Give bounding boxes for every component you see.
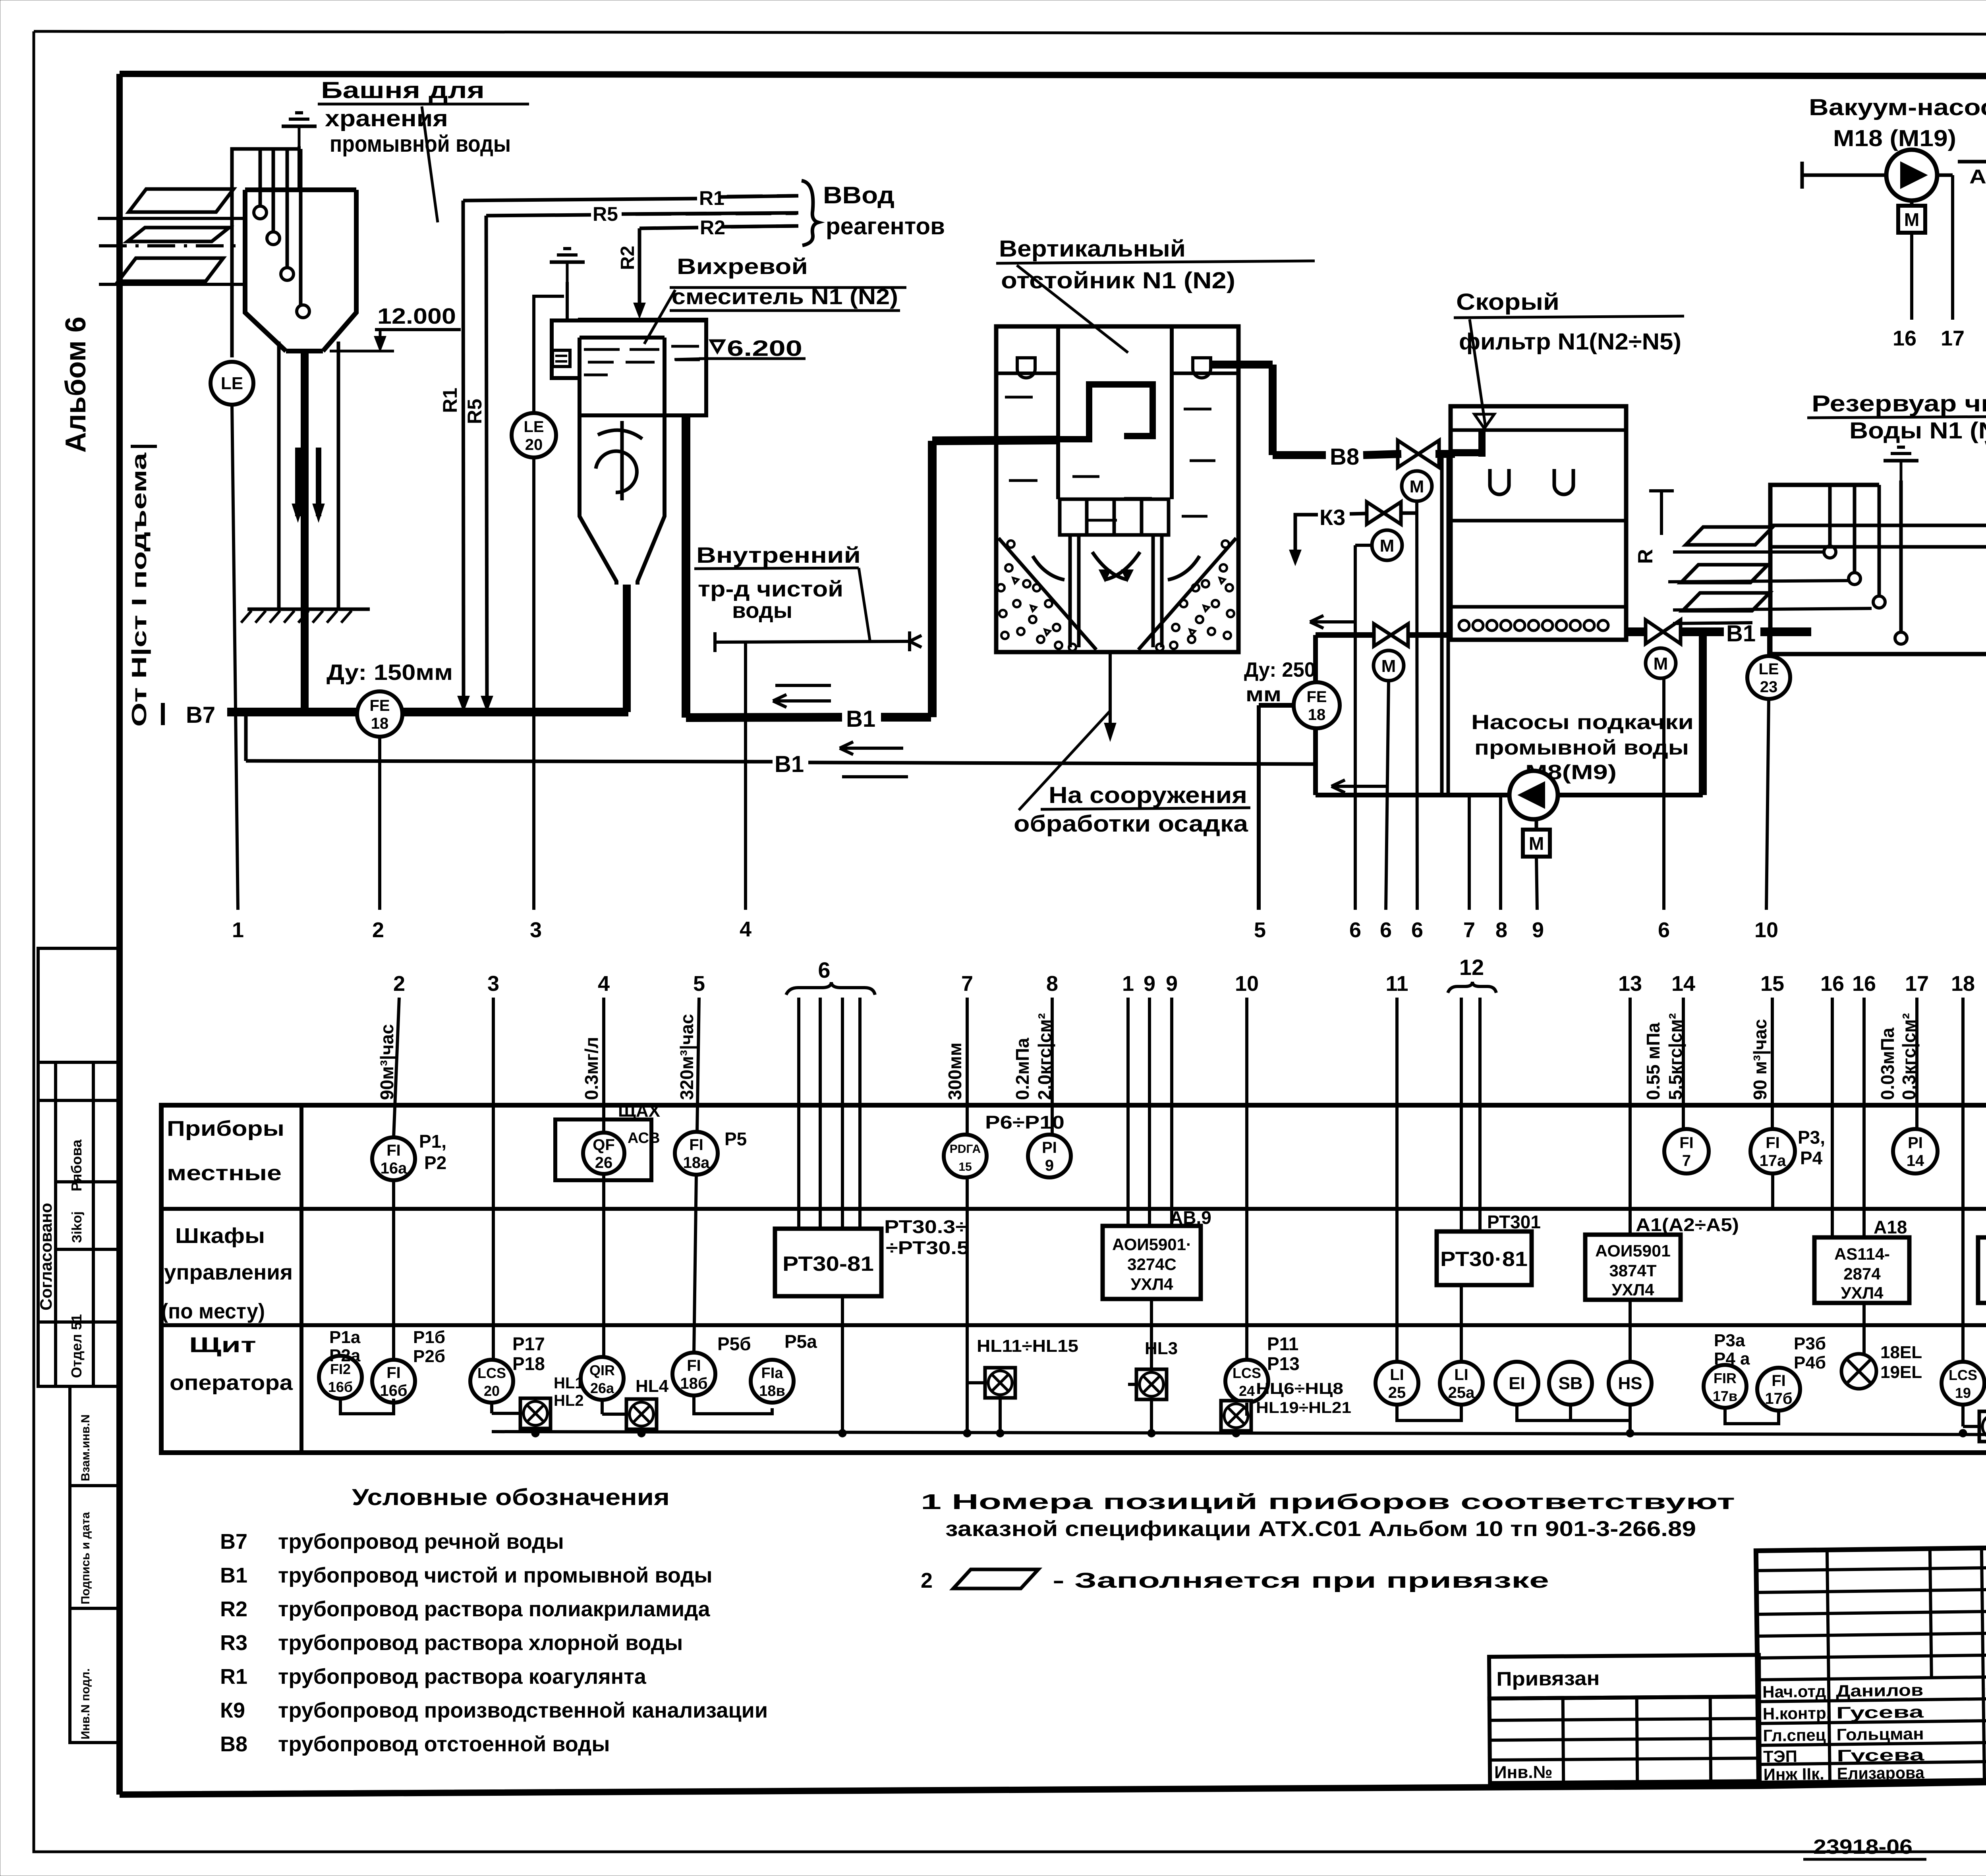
svg-text:Взам.инв.N: Взам.инв.N <box>79 1415 92 1481</box>
pump discharge to B1 riser <box>1558 793 1703 797</box>
svg-text:На сооружения: На сооружения <box>1049 782 1247 808</box>
svg-text:9: 9 <box>1166 972 1178 996</box>
signal lines 7 8 <box>1468 795 1471 910</box>
svg-text:Елизарова: Елизарова <box>1837 1763 1924 1783</box>
flow arrows under tower <box>295 448 301 516</box>
svg-text:В8: В8 <box>1330 444 1359 470</box>
svg-text:2: 2 <box>372 918 384 942</box>
instrument FIR 17v <box>1704 1365 1746 1408</box>
tower internal pipes <box>259 149 262 212</box>
svg-text:Р1а: Р1а <box>329 1328 361 1347</box>
wash water valve to filter <box>1316 632 1374 638</box>
button SB <box>1549 1362 1592 1405</box>
svg-text:Приборы: Приборы <box>167 1117 284 1141</box>
svg-text:18: 18 <box>1308 706 1326 724</box>
svg-text:Башня для: Башня для <box>321 77 485 103</box>
svg-text:26: 26 <box>595 1154 613 1172</box>
svg-text:Вертикальный: Вертикальный <box>999 236 1186 262</box>
svg-text:обработки осадка: обработки осадка <box>1014 811 1248 837</box>
svg-text:В1: В1 <box>846 706 875 732</box>
sludge hatch dots <box>1005 564 1012 571</box>
filter drain pipes to wash pumps <box>1440 457 1444 795</box>
svg-text:8: 8 <box>1495 918 1507 942</box>
instrument FI 17a <box>1750 1129 1795 1173</box>
cabinet АОИ5901-3274С no.1 <box>1103 1226 1201 1299</box>
svg-text:4: 4 <box>598 972 610 996</box>
switch HS <box>1609 1362 1652 1405</box>
signal line 9 <box>1536 857 1537 910</box>
svg-text:Р2а: Р2а <box>329 1346 361 1365</box>
main drawing frame <box>120 74 1986 77</box>
svg-text:16: 16 <box>1852 972 1876 996</box>
svg-text:управления: управления <box>164 1260 293 1284</box>
svg-text:17б: 17б <box>1765 1390 1792 1407</box>
От Н/ст I подъема vertical note <box>131 445 157 448</box>
svg-text:А18: А18 <box>1874 1217 1907 1237</box>
svg-text:1: 1 <box>232 918 244 942</box>
svg-text:М: М <box>1904 209 1919 230</box>
svg-text:Р2: Р2 <box>424 1152 446 1173</box>
mixer water level dashes <box>584 348 620 351</box>
svg-text:Р4: Р4 <box>1800 1148 1823 1168</box>
svg-text:18: 18 <box>1951 972 1975 996</box>
svg-text:Инж IIк.: Инж IIк. <box>1763 1764 1824 1784</box>
svg-text:FIа: FIа <box>761 1365 784 1382</box>
settler top water line <box>996 372 1058 375</box>
instrument FI 17b <box>1757 1368 1800 1411</box>
svg-text:А1(А2÷А5): А1(А2÷А5) <box>1636 1214 1739 1235</box>
svg-text:R2: R2 <box>617 246 638 270</box>
svg-text:FE: FE <box>1306 688 1327 706</box>
settler sludge slope right <box>1138 538 1236 650</box>
svg-text:10: 10 <box>1754 918 1778 942</box>
svg-text:0.55 мПа: 0.55 мПа <box>1643 1023 1663 1100</box>
svg-text:Резервуар чистой: Резервуар чистой <box>1812 391 1986 417</box>
settler inner water dashes <box>1005 396 1033 399</box>
lamp HL24 <box>1979 1411 1986 1442</box>
reservoir hatch parallelogram 2 <box>1681 565 1768 583</box>
svg-text:R1: R1 <box>220 1665 247 1689</box>
svg-text:промывной воды: промывной воды <box>1474 736 1689 759</box>
tower level sensor circles <box>254 206 267 219</box>
svg-text:АО: АО <box>1969 166 1986 188</box>
mixer inlet pipe from B7 <box>623 585 631 712</box>
svg-text:HL3: HL3 <box>1145 1339 1178 1358</box>
svg-text:7: 7 <box>1463 918 1475 942</box>
settler legs <box>1068 535 1072 647</box>
svg-text:М: М <box>1380 536 1395 556</box>
svg-text:R2: R2 <box>220 1597 247 1621</box>
svg-text:Р1,: Р1, <box>419 1131 446 1152</box>
svg-text:Щит: Щит <box>189 1333 256 1357</box>
AO vent line <box>1958 160 1986 164</box>
svg-text:ЩАХ: ЩАХ <box>618 1101 660 1121</box>
instrument EI <box>1495 1362 1538 1405</box>
settler flow arrows <box>1092 552 1128 580</box>
svg-text:РТ30·81: РТ30·81 <box>1440 1248 1528 1271</box>
svg-text:ТЭП: ТЭП <box>1763 1747 1797 1766</box>
svg-text:FIR: FIR <box>1714 1370 1737 1386</box>
mixer vortex symbol <box>596 451 637 492</box>
svg-text:6: 6 <box>818 957 830 982</box>
tower outlet pipe <box>301 351 309 712</box>
mixer small side box <box>553 350 570 367</box>
signal line 3 <box>532 457 535 910</box>
instrument LI 25 <box>1376 1362 1418 1405</box>
svg-text:20: 20 <box>484 1383 500 1399</box>
svg-text:Р2б: Р2б <box>413 1347 445 1366</box>
svg-text:6.200: 6.200 <box>727 336 802 361</box>
svg-text:трубопровод производственной к: трубопровод производственной канализации <box>278 1698 768 1722</box>
svg-text:Р18: Р18 <box>512 1353 545 1374</box>
svg-text:17а: 17а <box>1760 1152 1786 1170</box>
svg-text:ЕI: ЕI <box>1509 1374 1525 1393</box>
svg-text:QIR: QIR <box>589 1362 615 1378</box>
svg-text:15: 15 <box>958 1160 972 1173</box>
reservoir hatch parallelogram 1 <box>1686 527 1773 545</box>
svg-text:9: 9 <box>1045 1157 1054 1174</box>
signal line 2 <box>378 737 381 910</box>
svg-text:Условные обозначения: Условные обозначения <box>352 1484 670 1510</box>
svg-text:трубопровод раствора коагулянт: трубопровод раствора коагулянта <box>278 1665 647 1689</box>
flow meter FE 18 on B7 <box>357 691 402 737</box>
hatch feed lines <box>1673 550 1824 554</box>
wash pump M8(M9) <box>1509 771 1558 819</box>
svg-text:3874Т: 3874Т <box>1609 1261 1656 1280</box>
svg-text:3: 3 <box>487 972 499 996</box>
lamp HL19-HL21 <box>1221 1401 1251 1431</box>
svg-text:Р3б: Р3б <box>1794 1334 1826 1353</box>
svg-text:Привязан: Привязан <box>1496 1667 1600 1690</box>
pipe R5 vertical <box>486 216 487 707</box>
svg-text:18б: 18б <box>680 1375 707 1392</box>
svg-text:14: 14 <box>1907 1152 1924 1170</box>
settler inner walls <box>1056 326 1060 499</box>
lamp 18EL 19EL <box>1841 1354 1876 1389</box>
tower hatch parallelogram 3 <box>118 258 223 281</box>
lamp HL11-HL15 <box>985 1368 1015 1398</box>
svg-text:7: 7 <box>1682 1152 1691 1170</box>
svg-text:В1: В1 <box>1726 621 1756 647</box>
svg-text:LCS: LCS <box>1233 1365 1261 1381</box>
filter U drains <box>1490 469 1509 494</box>
svg-text:Ду: 150мм: Ду: 150мм <box>326 660 453 685</box>
svg-text:АS114-: АS114- <box>1834 1245 1890 1263</box>
svg-text:АСВ: АСВ <box>628 1130 660 1146</box>
svg-text:Альбом 6: Альбом 6 <box>60 317 92 453</box>
bracket clean water range <box>715 641 910 642</box>
instrument FI 16a <box>372 1137 415 1180</box>
svg-text:HL11÷HL15: HL11÷HL15 <box>977 1336 1078 1356</box>
svg-text:Нач.отд: Нач.отд <box>1762 1682 1826 1701</box>
lamp HL3 <box>1136 1369 1167 1399</box>
svg-text:19: 19 <box>1955 1385 1971 1401</box>
svg-text:23918-06: 23918-06 <box>1813 1835 1913 1859</box>
attachment box Привязан <box>1489 1655 1760 1783</box>
svg-text:В7: В7 <box>186 702 215 728</box>
cabinet box ЩАХ <box>555 1119 651 1180</box>
pipe B1 filter outlet <box>1626 627 1646 636</box>
svg-text:хранения: хранения <box>325 106 448 131</box>
svg-text:18EL: 18EL <box>1880 1343 1922 1362</box>
instrument QF 26 <box>583 1133 624 1174</box>
svg-text:3: 3 <box>530 918 542 942</box>
instrument FI2 16b <box>319 1356 362 1399</box>
pipe R1 vertical <box>463 201 464 707</box>
svg-text:2: 2 <box>393 972 405 996</box>
settler sludge slope left <box>999 538 1096 650</box>
svg-text:РТ301: РТ301 <box>1487 1212 1541 1232</box>
svg-text:РТ30.3÷: РТ30.3÷ <box>884 1216 968 1237</box>
svg-text:PDГА: PDГА <box>950 1143 981 1156</box>
flow arrows to B1 <box>773 699 831 703</box>
svg-text:3274С: 3274С <box>1127 1255 1177 1274</box>
svg-text:5.5кгс|см²: 5.5кгс|см² <box>1665 1013 1686 1100</box>
svg-text:FI: FI <box>1772 1372 1786 1390</box>
tower vessel <box>245 190 286 351</box>
svg-text:LI: LI <box>1390 1366 1404 1384</box>
svg-text:Р1б: Р1б <box>413 1328 445 1347</box>
level instrument LE tower <box>211 362 253 405</box>
svg-text:воды: воды <box>732 598 792 623</box>
svg-text:М: М <box>1410 477 1424 496</box>
svg-text:23: 23 <box>1760 678 1778 696</box>
svg-text:FI: FI <box>386 1142 401 1159</box>
level instrument LE 20 <box>512 413 556 457</box>
M actuator of K3 valve <box>1372 530 1402 560</box>
svg-text:R2: R2 <box>700 216 725 239</box>
svg-text:20: 20 <box>525 436 543 454</box>
T vent mark <box>1660 491 1663 535</box>
svg-text:25а: 25а <box>1448 1384 1475 1401</box>
instrument PDGA 15 <box>944 1135 987 1177</box>
svg-text:0.3кгс|см²: 0.3кгс|см² <box>1899 1013 1919 1100</box>
title block <box>1756 1542 1986 1784</box>
svg-text:НS: НS <box>1618 1374 1642 1393</box>
ground symbol on tower <box>298 126 301 146</box>
svg-text:17: 17 <box>1941 326 1965 350</box>
settler S-pipe <box>1058 384 1153 439</box>
svg-text:АВ.9: АВ.9 <box>1170 1207 1211 1228</box>
svg-text:Инв.N подл.: Инв.N подл. <box>79 1668 92 1739</box>
svg-text:М18 (М19): М18 (М19) <box>1833 125 1956 151</box>
svg-text:15: 15 <box>1760 972 1784 996</box>
filter bottom strip <box>1451 605 1626 609</box>
svg-text:- Заполняется при привязке: - Заполняется при привязке <box>1053 1569 1549 1592</box>
svg-text:АОИ5901·: АОИ5901· <box>1112 1235 1192 1254</box>
svg-text:УХЛ4: УХЛ4 <box>1841 1283 1884 1302</box>
flow meter FE 18 on wash line <box>1294 682 1340 728</box>
svg-text:6: 6 <box>1411 918 1423 942</box>
svg-text:Отдел 51: Отдел 51 <box>68 1314 85 1378</box>
svg-text:26а: 26а <box>590 1380 614 1396</box>
instrument PI 14 <box>1893 1129 1938 1173</box>
svg-text:90 м³|час: 90 м³|час <box>1750 1019 1770 1100</box>
svg-text:Гусева: Гусева <box>1836 1702 1924 1722</box>
svg-text:2: 2 <box>921 1569 933 1592</box>
svg-text:25: 25 <box>1388 1384 1406 1401</box>
svg-text:LE: LE <box>1758 660 1779 678</box>
filter nozzles <box>1459 620 1469 631</box>
svg-text:FI: FI <box>1679 1134 1694 1152</box>
instrument LI 25a <box>1440 1362 1483 1405</box>
mixer inner vessel <box>580 338 616 585</box>
svg-text:В1: В1 <box>775 751 804 777</box>
svg-text:HL19÷HL21: HL19÷HL21 <box>1256 1399 1351 1417</box>
tower hatch parallelogram 1 <box>129 189 234 212</box>
svg-text:16а: 16а <box>381 1160 407 1177</box>
svg-text:HL4: HL4 <box>636 1376 669 1396</box>
svg-text:В7: В7 <box>220 1530 247 1554</box>
instrument FI 16b <box>372 1360 415 1403</box>
brace ВВод реагентов <box>802 181 818 245</box>
svg-text:14: 14 <box>1671 972 1695 996</box>
level mark 6.200 <box>711 341 724 352</box>
mixer outlet pipe down <box>682 415 690 718</box>
pipe R1 horizontal <box>463 199 697 201</box>
svg-text:заказной спецификации АТХ.С01: заказной спецификации АТХ.С01 Альбом 10 … <box>945 1517 1696 1541</box>
cabinet АОИ5901-3874Т <box>1585 1235 1681 1300</box>
svg-text:0.3мг/л: 0.3мг/л <box>581 1037 602 1100</box>
svg-text:2.0кгс|см²: 2.0кгс|см² <box>1034 1013 1055 1100</box>
svg-text:Вакуум-насос: Вакуум-насос <box>1809 95 1986 120</box>
cabinet РТ30-81 no.2 <box>1437 1231 1532 1285</box>
left margin stamp cells <box>38 948 120 1062</box>
svg-text:1 Номера позиций приборов соот: 1 Номера позиций приборов соответствуют <box>921 1490 1735 1514</box>
svg-text:Гусева: Гусева <box>1837 1745 1925 1765</box>
svg-text:5: 5 <box>1254 918 1266 942</box>
svg-text:Р3,: Р3, <box>1798 1127 1825 1148</box>
reservoir hatch parallelogram 3 <box>1683 593 1770 611</box>
svg-text:Вихревой: Вихревой <box>677 254 808 279</box>
svg-text:4: 4 <box>740 917 752 941</box>
reservoir connecting lines <box>1770 524 1986 527</box>
instrument FIa 18v <box>751 1360 794 1403</box>
svg-text:LE: LE <box>524 418 544 436</box>
signal line 6a from K3 valve <box>1355 544 1372 547</box>
svg-text:19EL: 19EL <box>1880 1363 1922 1382</box>
svg-text:SВ: SВ <box>1558 1374 1582 1393</box>
settler outer tank <box>996 326 1238 652</box>
svg-text:9: 9 <box>1532 918 1544 942</box>
instrument LCS 24 <box>1225 1360 1268 1403</box>
leader to tower <box>422 106 438 222</box>
svg-text:10: 10 <box>1235 972 1259 996</box>
svg-text:Насосы подкачки: Насосы подкачки <box>1471 711 1694 734</box>
leader to settler <box>1017 265 1128 353</box>
signal line 4 <box>744 642 747 910</box>
leader to filter <box>1470 319 1486 427</box>
svg-text:24: 24 <box>1239 1383 1255 1399</box>
pipe R5 horizontal <box>486 215 591 216</box>
svg-text:Скорый: Скорый <box>1456 289 1559 315</box>
svg-text:R1: R1 <box>439 388 461 413</box>
svg-text:В1: В1 <box>220 1563 247 1587</box>
svg-text:М: М <box>1381 656 1396 676</box>
leader to mixer <box>644 290 675 344</box>
svg-text:Р5: Р5 <box>724 1129 747 1149</box>
svg-text:16: 16 <box>1893 326 1916 350</box>
svg-text:(по месту): (по месту) <box>161 1299 265 1323</box>
svg-text:Данилов: Данилов <box>1836 1681 1924 1700</box>
cabinet АОИ5901-3274С no.2 <box>1978 1237 1986 1303</box>
wash water loop piping <box>1259 703 1294 708</box>
filter media line <box>1451 519 1626 523</box>
instrument QIR 26a <box>581 1357 624 1400</box>
signal line 6b <box>1386 681 1389 910</box>
svg-text:FI: FI <box>687 1357 701 1374</box>
filter inlet pipe <box>1451 449 1482 456</box>
mixer outer tank <box>552 320 578 378</box>
svg-text:НЦ6÷НЦ8: НЦ6÷НЦ8 <box>1256 1380 1343 1397</box>
svg-text:оператора: оператора <box>170 1371 293 1395</box>
svg-text:Рябова: Рябова <box>68 1139 85 1191</box>
settler distribution grid <box>1060 499 1169 535</box>
lamp HL4 <box>626 1399 657 1429</box>
reservoir left compartment <box>1770 485 1879 654</box>
svg-text:трубопровод чистой и промывной: трубопровод чистой и промывной воды <box>278 1563 713 1587</box>
pipe B1 internal line <box>244 712 248 761</box>
svg-text:LI: LI <box>1454 1366 1468 1384</box>
svg-text:0.2мПа: 0.2мПа <box>1012 1038 1033 1100</box>
signal line 6d <box>1662 678 1665 910</box>
level instrument LE 23 <box>1747 656 1790 699</box>
svg-text:18в: 18в <box>759 1383 785 1399</box>
svg-text:Р3а: Р3а <box>1714 1331 1745 1350</box>
signal drops in table <box>394 998 399 1137</box>
M actuator of wash valve <box>1374 650 1404 681</box>
svg-text:17в: 17в <box>1713 1388 1737 1404</box>
lamp HL1 HL2 <box>520 1398 551 1428</box>
M box of vacuum pump <box>1910 201 1914 205</box>
svg-text:ВВод: ВВод <box>823 182 894 208</box>
ground above reservoir <box>1900 461 1903 481</box>
svg-text:HL2: HL2 <box>554 1392 584 1409</box>
svg-text:Р11: Р11 <box>1267 1334 1298 1354</box>
svg-text:УХЛ4: УХЛ4 <box>1612 1280 1655 1299</box>
instrument FI 18b <box>672 1353 715 1395</box>
svg-text:R: R <box>1634 549 1657 564</box>
settler drain line <box>1109 652 1112 735</box>
svg-text:Р4б: Р4б <box>1794 1353 1826 1372</box>
svg-text:QF: QF <box>593 1136 615 1154</box>
svg-text:LCS: LCS <box>477 1365 506 1381</box>
svg-text:В8: В8 <box>220 1732 247 1756</box>
wash pump suction line <box>1316 793 1509 797</box>
svg-text:Зikoj: Зikoj <box>70 1211 85 1243</box>
svg-text:УХЛ4: УХЛ4 <box>1131 1275 1174 1293</box>
cabinet РТ30-81 no.1 <box>775 1229 881 1296</box>
svg-text:9: 9 <box>1144 972 1155 996</box>
svg-text:12: 12 <box>1459 955 1484 980</box>
svg-text:6: 6 <box>1380 918 1392 942</box>
valve on filter outlet <box>1646 620 1663 644</box>
svg-text:16: 16 <box>1820 972 1844 996</box>
svg-text:трубопровод раствора хлорной в: трубопровод раствора хлорной воды <box>278 1631 683 1655</box>
svg-text:FE: FE <box>369 697 390 714</box>
svg-text:трубопровод речной воды: трубопровод речной воды <box>278 1530 564 1554</box>
svg-text:Шкафы: Шкафы <box>175 1224 265 1248</box>
svg-text:Р5б: Р5б <box>717 1334 751 1354</box>
svg-text:R1: R1 <box>699 187 724 209</box>
signal line 16 <box>1910 233 1913 320</box>
cabinet АS114-2874 <box>1814 1237 1909 1303</box>
svg-text:Гольцман: Гольцман <box>1836 1724 1924 1744</box>
svg-text:М: М <box>1654 654 1668 674</box>
valve on B8 <box>1398 440 1418 467</box>
svg-text:местные: местные <box>167 1161 282 1185</box>
instrument LCS 19 <box>1942 1362 1984 1405</box>
